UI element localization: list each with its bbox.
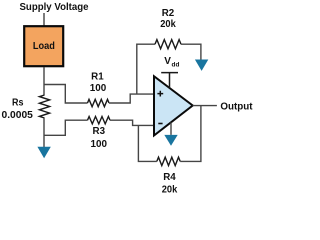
svg-text:100: 100 [91,138,108,150]
svg-text:V: V [164,56,171,67]
resistor R3 [88,117,111,124]
wire R2 left leg [137,44,155,94]
load box [24,26,63,66]
svg-text:Rs: Rs [12,97,24,109]
svg-text:Supply Voltage: Supply Voltage [20,1,89,13]
svg-text:100: 100 [90,82,107,94]
svg-text:R1: R1 [91,71,104,83]
svg-text:Output: Output [220,100,253,112]
wire R1 to op-amp plus input [109,94,154,103]
ground arrow at R2 [195,60,208,71]
minus sign [158,123,162,125]
wire R3 to op-amp minus input [110,120,154,125]
wire R4 right leg to output [180,106,201,162]
svg-text:R3: R3 [93,125,106,137]
wire supply to load [43,13,45,26]
resistor R4 [157,157,180,165]
svg-text:R2: R2 [162,7,175,19]
svg-text:20k: 20k [160,18,176,30]
svg-text:0.0005: 0.0005 [2,109,34,121]
svg-text:Load: Load [33,40,55,52]
wire output [193,105,217,107]
ground arrow below Rs [37,147,50,158]
wire R2 right leg [181,44,201,59]
svg-text:20k: 20k [162,183,178,195]
negative supply pin [170,122,172,134]
op-amp U1 [154,76,193,135]
wire R4 left leg [138,125,156,161]
resistor R2 [155,40,181,49]
wire load bottom to Rs [43,67,45,95]
resistor R1 [88,99,110,106]
Vdd supply pin [161,73,178,88]
ground arrow below op-amp [164,135,177,146]
resistor Rs [39,95,49,118]
wire branch node A to R1 [44,85,88,104]
wire Rs bottom to ground [43,118,45,147]
svg-text:R4: R4 [163,171,176,183]
wire branch node B to R3 [44,120,88,135]
svg-text:dd: dd [172,61,180,68]
plus sign [157,91,163,97]
